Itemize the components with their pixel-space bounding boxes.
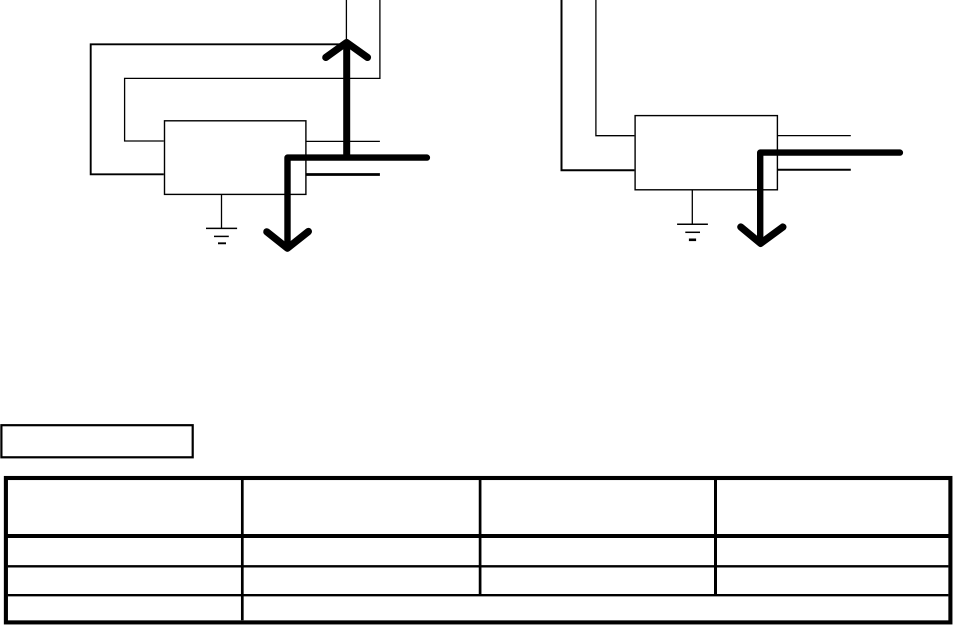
wire VDD stub to top edge (left circuit) (345, 0, 347, 41)
wire stub right bottom of U1 (306, 173, 380, 176)
table column rule 2 (stops at last row) (479, 478, 482, 595)
thick arrow up (left circuit) (326, 43, 368, 158)
wire stub right bottom of U2 (777, 169, 850, 171)
thick bus with down arrow (left circuit) (267, 158, 427, 249)
IC U2 (right box) (635, 116, 777, 190)
wire stub right top of U2 (777, 135, 850, 137)
wire input outer net (right circuit) into pin 2 of U2 (562, 0, 635, 170)
IC U1 (left box) (165, 121, 306, 195)
table row rule 2 (8, 594, 949, 596)
ground GND2 under U2 (677, 190, 708, 240)
thick bus with down arrow (right circuit) (741, 153, 900, 244)
ground GND1 under U1 (206, 194, 237, 243)
wire input inner net (right circuit) into pin 1 of U2 (596, 0, 635, 136)
table column rule 3 (stops at last row) (714, 478, 717, 595)
table column rule 1 (full height) (241, 478, 244, 620)
wire outer loop net into pin 2 of U1 (91, 44, 344, 174)
wire stub right top of U1 (306, 140, 380, 142)
table header bottom rule (thick) (4, 534, 952, 538)
table outer border (6, 478, 951, 622)
label box (figure caption placeholder) (1, 425, 192, 457)
wire feedback net: top edge down, across, into pin 1 of U1 (125, 0, 380, 141)
table row rule 1 (8, 565, 949, 567)
